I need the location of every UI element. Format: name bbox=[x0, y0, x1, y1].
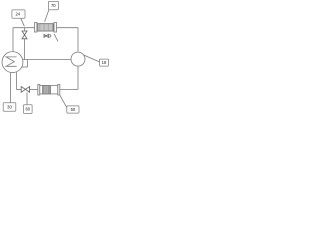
fan motor circle bbox=[48, 35, 51, 38]
label box 50 bbox=[67, 106, 79, 113]
svg-text:50: 50 bbox=[71, 107, 76, 112]
svg-text:18: 18 bbox=[102, 60, 107, 65]
evaporator body bbox=[40, 86, 58, 94]
wire top-right horizontal pipe bbox=[57, 27, 79, 29]
pump circle bbox=[71, 52, 85, 66]
wire bottom-right horizontal pipe bbox=[60, 89, 78, 91]
label box 24 bbox=[12, 10, 25, 18]
svg-text:30: 30 bbox=[7, 104, 12, 109]
wire left vertical pipe down to tank bbox=[12, 28, 14, 52]
svg-text:60: 60 bbox=[25, 107, 30, 112]
label box 70 bbox=[48, 1, 58, 9]
expansion valve stub bottom bbox=[24, 39, 26, 60]
wire top-left horizontal pipe bbox=[13, 27, 35, 29]
expansion valve stub top bbox=[24, 28, 26, 31]
leader line to label 24 bbox=[21, 18, 25, 26]
condenser hatch band bbox=[38, 24, 53, 31]
wire tank bottom vertical pipe bbox=[16, 72, 18, 90]
wire tank lower-right pipe bbox=[22, 66, 28, 68]
leader line below condenser right bbox=[54, 34, 58, 42]
leader line to label 50 bbox=[60, 95, 67, 107]
leader line to label 60 bbox=[26, 92, 28, 104]
fan left blade bbox=[44, 34, 46, 37]
wire tank upper-right pipe to pump bbox=[23, 59, 72, 61]
svg-text:24: 24 bbox=[15, 12, 20, 17]
wire right vertical pipe down to pump bbox=[77, 28, 79, 52]
bottom valve left triangle bbox=[21, 87, 25, 93]
wire valve to evaporator pipe bbox=[30, 89, 38, 91]
label box 30 bbox=[3, 103, 16, 111]
label box 60 bbox=[24, 105, 33, 114]
fan right blade bbox=[46, 34, 48, 37]
evaporator hatched band bbox=[43, 86, 51, 94]
evaporator right cap bbox=[58, 85, 60, 96]
wire pipe to bottom valve bbox=[17, 89, 22, 91]
svg-text:70: 70 bbox=[51, 3, 56, 8]
leader line to label 70 bbox=[45, 10, 49, 22]
expansion valve lower triangle bbox=[22, 35, 27, 39]
tank sigma coil bbox=[6, 57, 17, 66]
condenser left cap bbox=[35, 23, 38, 33]
tank circle bbox=[2, 52, 23, 73]
label box 18 bbox=[100, 59, 109, 66]
leader line to label 18 bbox=[83, 55, 99, 62]
leader line to label 30 bbox=[10, 73, 12, 103]
bottom valve right triangle bbox=[25, 87, 29, 93]
expansion valve upper triangle bbox=[22, 31, 27, 35]
condenser body hatched bbox=[37, 24, 54, 31]
wire pump bottom vertical pipe bbox=[77, 66, 79, 90]
wire bracket vertical bbox=[27, 60, 29, 68]
evaporator left cap bbox=[38, 85, 40, 96]
condenser right cap bbox=[54, 23, 57, 33]
